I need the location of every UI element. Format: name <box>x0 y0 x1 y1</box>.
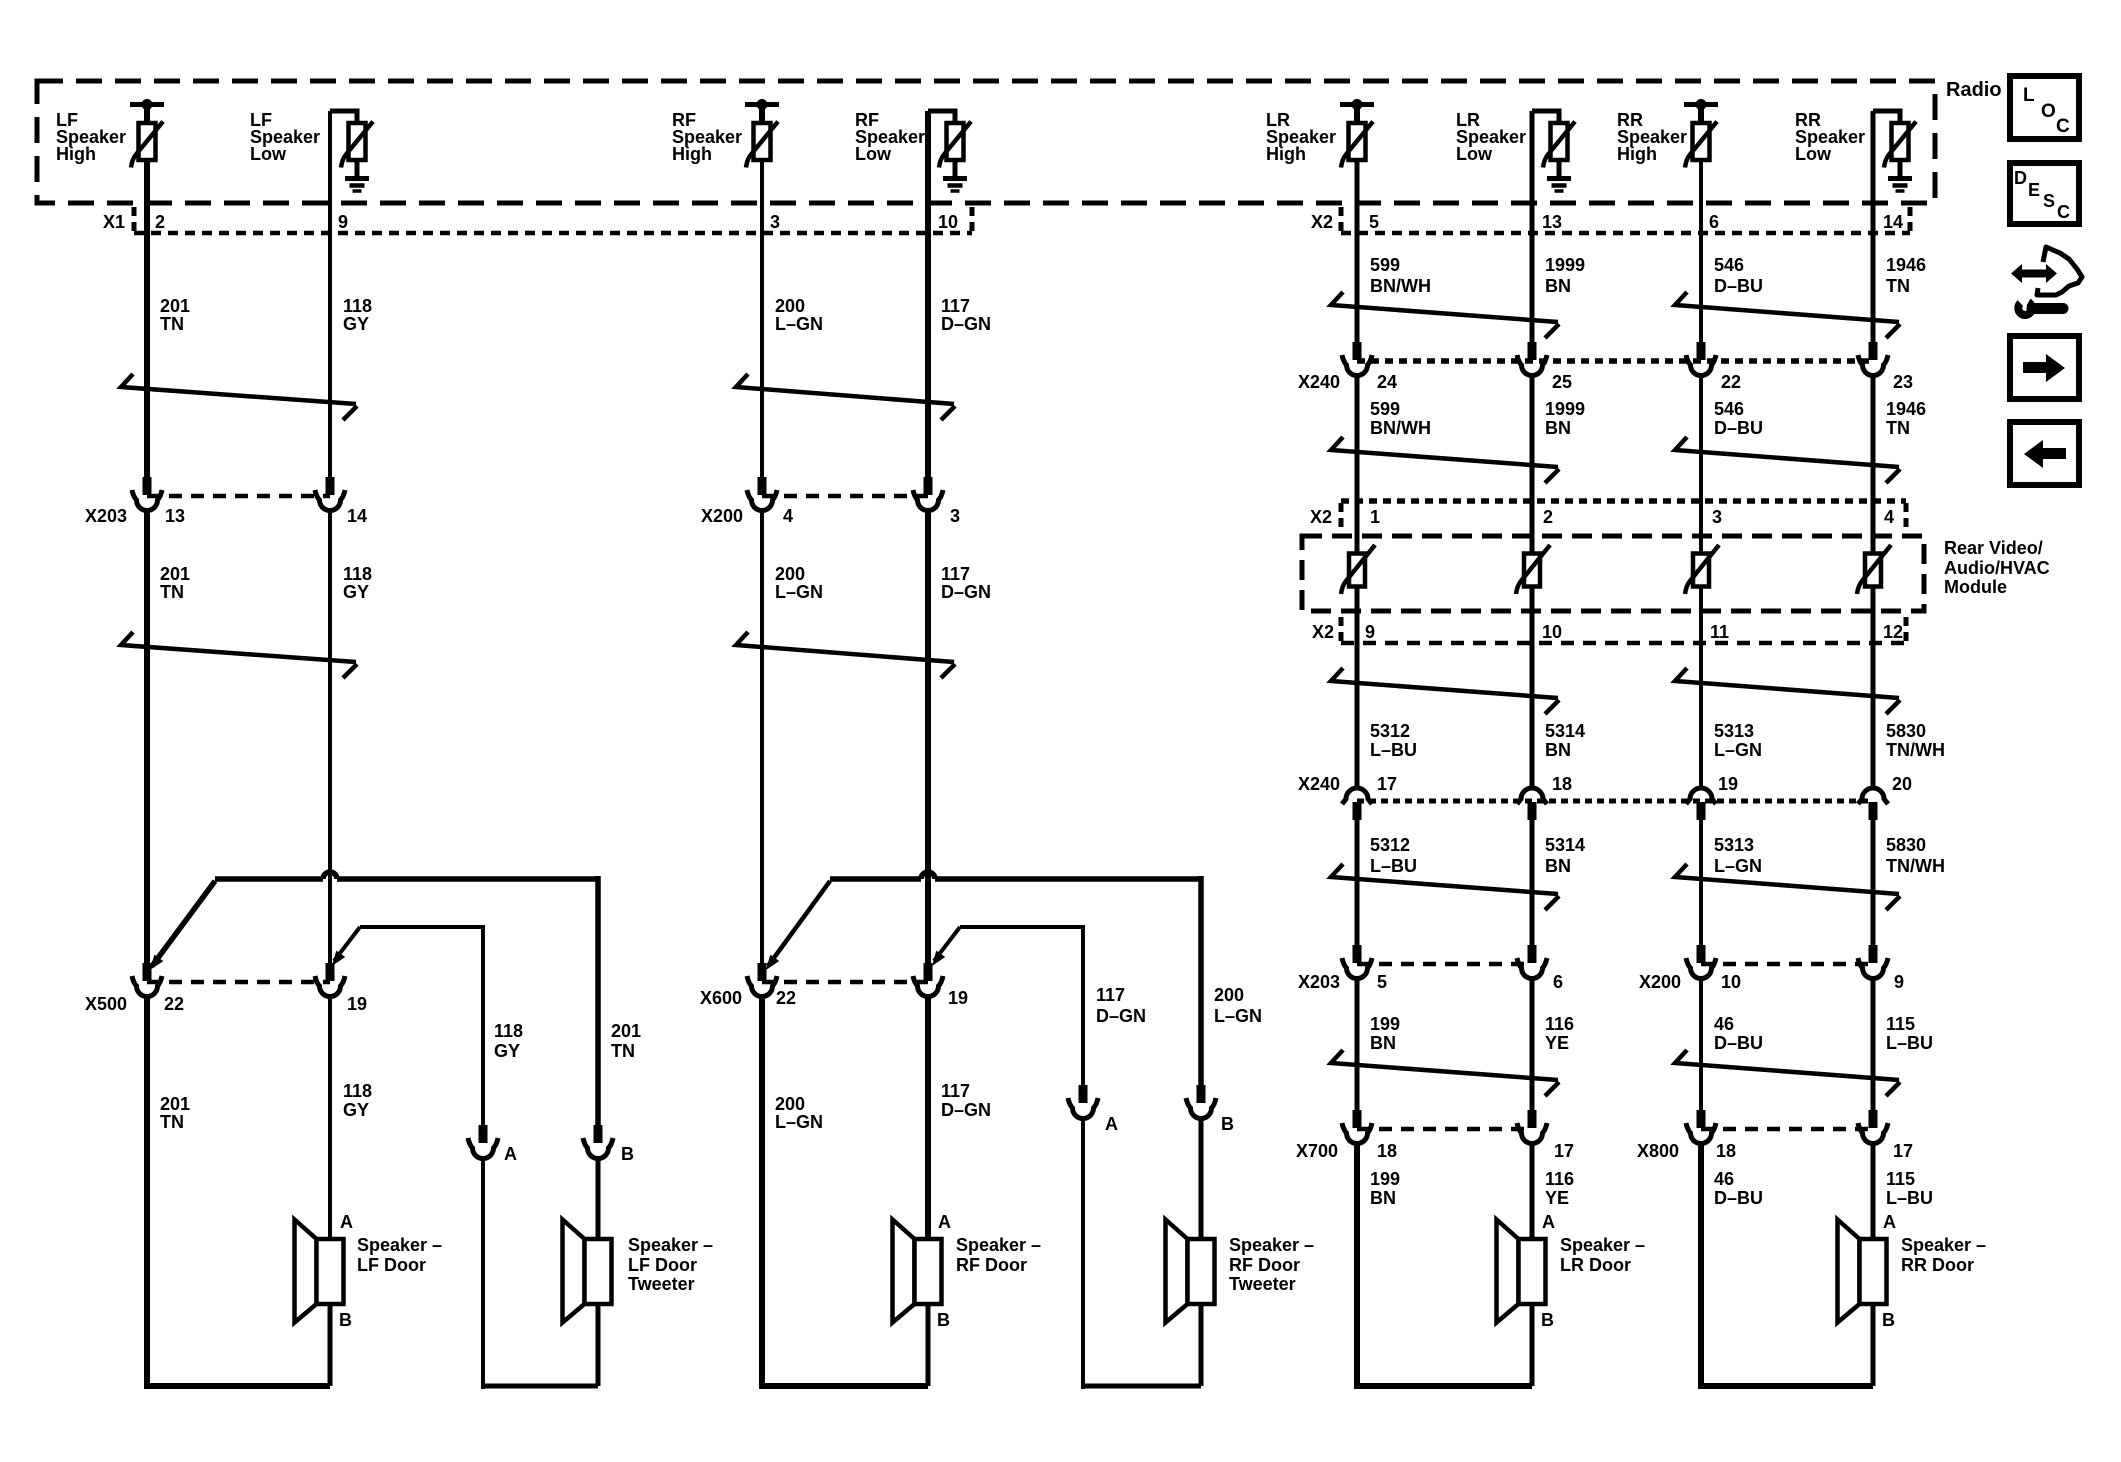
wire branch diagonal into X600 pin 22 <box>768 881 830 966</box>
wire hop over 118 GY <box>323 872 337 879</box>
X203 socket pin 13 <box>143 477 152 495</box>
svg-text:6: 6 <box>1553 972 1563 992</box>
svg-text:200: 200 <box>1214 985 1244 1005</box>
svg-text:B: B <box>339 1310 352 1330</box>
svg-text:X2: X2 <box>1311 212 1333 232</box>
svg-text:23: 23 <box>1893 372 1913 392</box>
wire 117 D-GN (w4) X200 to X600 <box>925 509 931 970</box>
svg-text:D: D <box>2014 168 2027 188</box>
connector X240 (lower) dotted line <box>1357 799 1873 804</box>
svg-text:X500: X500 <box>85 994 127 1014</box>
svg-text:BN: BN <box>1545 418 1571 438</box>
connector X1 right tick <box>970 207 975 233</box>
radio output LF Speaker High (attenuator) <box>130 102 164 107</box>
connector X1 dotted line <box>134 231 972 236</box>
connector X500 dashed line <box>147 980 330 985</box>
svg-text:L: L <box>2023 85 2035 106</box>
inline connector A (LF tweeter) <box>479 1125 488 1143</box>
wire 118 GY (w2) X203 to X500 <box>328 509 332 970</box>
connector X2 (module in) right tick <box>1904 503 1909 529</box>
wire RF tweeter bottom run <box>1081 1384 1201 1389</box>
svg-text:D–BU: D–BU <box>1714 276 1763 296</box>
svg-text:RF Door: RF Door <box>956 1255 1027 1275</box>
twisted pair LF wires <box>121 374 356 404</box>
wire branch 200 L-GN to tweeter (horizontal) <box>960 925 1083 929</box>
svg-text:5314: 5314 <box>1545 721 1585 741</box>
speaker LR Door symbol <box>1497 1220 1519 1323</box>
svg-text:TN/WH: TN/WH <box>1886 740 1945 760</box>
svg-text:A: A <box>340 1212 353 1232</box>
wire 200 L-GN (w3) X600 to bottom <box>759 995 765 1389</box>
svg-text:18: 18 <box>1716 1141 1736 1161</box>
svg-text:Speaker –: Speaker – <box>1560 1235 1645 1255</box>
svg-text:L–GN: L–GN <box>1714 740 1762 760</box>
connector X2 (module out) right tick <box>1904 617 1909 643</box>
svg-text:18: 18 <box>1377 1141 1397 1161</box>
svg-text:TN: TN <box>160 314 184 334</box>
svg-text:17: 17 <box>1554 1141 1574 1161</box>
X600 socket pin 19 <box>924 963 933 981</box>
svg-text:10: 10 <box>1721 972 1741 992</box>
svg-text:12: 12 <box>1883 622 1903 642</box>
connector X600 dashed line <box>762 980 928 985</box>
wire branch diagonal into X500 pin 19 <box>334 927 360 961</box>
connector X2 left tick <box>1339 207 1344 233</box>
svg-text:B: B <box>1541 1310 1554 1330</box>
svg-text:X240: X240 <box>1298 774 1340 794</box>
svg-text:9: 9 <box>1894 972 1904 992</box>
inline connector A (RF tweeter) <box>1079 1085 1088 1103</box>
svg-text:118: 118 <box>494 1021 523 1041</box>
svg-text:D–BU: D–BU <box>1714 418 1763 438</box>
X203 socket pin 14 <box>326 477 335 495</box>
twisted pair RF wires <box>736 374 954 404</box>
X203 rear socket pin 6 <box>1528 945 1537 963</box>
svg-text:Low: Low <box>250 144 287 164</box>
X203 rear socket pin 5 <box>1353 945 1362 963</box>
svg-text:115: 115 <box>1886 1169 1915 1189</box>
twisted pair LR wires (above X700) <box>1331 1050 1558 1080</box>
wire 5314 BN (w6) module to X240 <box>1530 587 1535 790</box>
module attenuator (pin 4) <box>1865 554 1881 587</box>
connector X2 right tick <box>1908 207 1913 233</box>
svg-text:5314: 5314 <box>1545 835 1585 855</box>
wire 546 D-BU (w7) radio to X240 <box>1699 160 1703 349</box>
svg-text:199: 199 <box>1370 1169 1400 1189</box>
rear video/audio/HVAC module dashed box <box>1302 536 1924 611</box>
X200 socket pin 3 <box>924 477 933 495</box>
svg-text:3: 3 <box>950 506 960 526</box>
arrowhead at X600 pin 19 <box>932 951 945 966</box>
connector X800 dashed line <box>1701 1127 1873 1132</box>
svg-text:TN: TN <box>160 1112 184 1132</box>
X200 rear socket pin 9 <box>1869 945 1878 963</box>
svg-text:10: 10 <box>1542 622 1562 642</box>
svg-text:TN: TN <box>1886 276 1910 296</box>
wire 200 L-GN (w3) radio to X200 <box>760 160 764 484</box>
svg-text:X2: X2 <box>1310 507 1332 527</box>
radio output RF Speaker Low (attenuator + ground) <box>928 111 955 123</box>
svg-text:D–GN: D–GN <box>941 314 991 334</box>
svg-text:2: 2 <box>155 212 165 232</box>
X240 lower socket pin 20 <box>1858 788 1888 804</box>
wire 200 L-GN (w3) X200 to X600 <box>760 509 764 970</box>
svg-text:1999: 1999 <box>1545 255 1585 275</box>
twisted pair LF wires (lower) <box>121 632 356 662</box>
wire 117 D-GN (w4) X600 to RF speaker <box>925 995 931 1239</box>
svg-text:46: 46 <box>1714 1014 1734 1034</box>
svg-text:Low: Low <box>1456 144 1493 164</box>
wire 1999 BN (w6) radio to X240 <box>1530 111 1535 349</box>
svg-text:D–GN: D–GN <box>941 582 991 602</box>
X240 lower socket pin 17 <box>1342 788 1372 804</box>
svg-text:BN: BN <box>1545 740 1571 760</box>
svg-text:22: 22 <box>776 988 796 1008</box>
icon wrench with arrows <box>2019 270 2049 278</box>
wire 5830 TN/WH (w8) X240 to X200 <box>1871 819 1876 947</box>
svg-text:Tweeter: Tweeter <box>628 1274 695 1294</box>
wire 115 L-BU (w8) X200 to X800 <box>1871 977 1876 1115</box>
svg-text:Module: Module <box>1944 577 2007 597</box>
speaker RF Door symbol <box>893 1220 915 1323</box>
connector X200 dashed line <box>762 494 928 499</box>
connector X2 (module in) left tick <box>1339 503 1344 529</box>
wire 599 BN/WH (w5) X240 to module <box>1355 374 1360 554</box>
module attenuator (pin 2) <box>1524 554 1540 587</box>
wire 118 GY (tweeter A) to bottom <box>481 1157 485 1389</box>
svg-text:546: 546 <box>1714 399 1744 419</box>
svg-text:201: 201 <box>611 1021 641 1041</box>
wire 5313 L-GN (w7) X240 to X200 <box>1699 819 1703 947</box>
twisted pair LR wires (upper) <box>1331 437 1558 467</box>
svg-text:C: C <box>2056 116 2070 137</box>
X240 lower socket pin 19 <box>1686 788 1716 804</box>
connector X240 dotted line <box>1357 358 1873 364</box>
svg-text:117: 117 <box>941 1081 970 1101</box>
svg-text:GY: GY <box>494 1041 520 1061</box>
svg-text:10: 10 <box>938 212 958 232</box>
svg-text:X600: X600 <box>700 988 742 1008</box>
svg-text:599: 599 <box>1370 399 1400 419</box>
connector X1 left tick <box>132 207 137 233</box>
svg-text:D–BU: D–BU <box>1714 1033 1763 1053</box>
arrowhead at X500 pin 19 <box>332 951 345 966</box>
connector X200 (rear) dashed line <box>1701 962 1873 967</box>
svg-text:199: 199 <box>1370 1014 1400 1034</box>
wire RF door speaker bottom run <box>759 1383 928 1389</box>
svg-text:BN: BN <box>1545 856 1571 876</box>
svg-text:A: A <box>504 1144 517 1164</box>
X200 socket pin 4 <box>758 477 767 495</box>
X700 socket pin 18 <box>1353 1110 1362 1128</box>
wire 201 TN (w1) X203 to X500 <box>144 509 150 970</box>
connector X203 (rear) dashed line <box>1357 962 1532 967</box>
svg-text:GY: GY <box>343 1100 369 1120</box>
wire 115 L-BU (w8) X800 to RR speaker <box>1871 1142 1876 1239</box>
X240 socket pin 24 <box>1353 342 1362 360</box>
wire 201 TN (w1) X500 to bottom <box>144 995 150 1389</box>
svg-text:Speaker –: Speaker – <box>956 1235 1041 1255</box>
svg-text:L–GN: L–GN <box>1214 1006 1262 1026</box>
svg-text:L–GN: L–GN <box>775 582 823 602</box>
svg-text:25: 25 <box>1552 372 1572 392</box>
connector X2 (module out) dashed line <box>1341 641 1906 646</box>
svg-text:High: High <box>1266 144 1306 164</box>
svg-text:O: O <box>2041 101 2056 122</box>
X240 socket pin 22 <box>1697 342 1706 360</box>
speaker RF Door Tweeter symbol <box>1166 1220 1188 1323</box>
wire 5312 L-BU (w5) module to X240 <box>1355 587 1360 790</box>
svg-text:115: 115 <box>1886 1014 1915 1034</box>
wire LF tweeter bottom run <box>481 1384 598 1389</box>
svg-text:TN: TN <box>611 1041 635 1061</box>
svg-text:5: 5 <box>1377 972 1387 992</box>
wire hop over 117 D-GN <box>921 872 935 879</box>
svg-text:24: 24 <box>1377 372 1397 392</box>
wire 546 D-BU (w7) X240 to module <box>1699 374 1703 554</box>
twisted pair LR wires (below module) <box>1331 668 1558 698</box>
wire branch 117 D-GN to tweeter (horizontal) <box>830 876 921 882</box>
speaker LF Door Tweeter symbol <box>563 1220 585 1323</box>
svg-text:L–BU: L–BU <box>1370 856 1417 876</box>
wire 116 YE (w6) X700 to LR speaker <box>1530 1142 1535 1239</box>
twisted pair RR wires (upper) <box>1675 437 1899 467</box>
twisted pair RR wires (above X800) <box>1675 1050 1899 1080</box>
connector X203 dashed line <box>147 494 330 499</box>
arrowhead at X500 pin 22 <box>150 955 163 970</box>
wire 599 BN/WH (w5) radio to X240 <box>1355 160 1360 349</box>
twisted pair RR wires (above X240) <box>1675 292 1899 322</box>
radio output LR Speaker High (attenuator) <box>1340 102 1374 107</box>
svg-text:17: 17 <box>1377 774 1397 794</box>
svg-text:46: 46 <box>1714 1169 1734 1189</box>
icon DESC box <box>2010 163 2079 224</box>
inline connector B (LF tweeter) <box>594 1125 603 1143</box>
wire 200 L-GN (tweeter B) to RF tweeter <box>1199 1117 1204 1239</box>
svg-text:X203: X203 <box>85 506 127 526</box>
svg-text:TN: TN <box>160 582 184 602</box>
svg-text:GY: GY <box>343 314 369 334</box>
svg-text:Speaker –: Speaker – <box>357 1235 442 1255</box>
svg-text:18: 18 <box>1552 774 1572 794</box>
connector X2 (module out) left tick <box>1339 617 1344 643</box>
svg-text:3: 3 <box>1712 507 1722 527</box>
radio output RR Speaker High (attenuator) <box>1684 102 1718 107</box>
svg-text:201: 201 <box>160 1094 190 1114</box>
module attenuator (pin 3) <box>1693 554 1709 587</box>
svg-text:D–GN: D–GN <box>941 1100 991 1120</box>
svg-text:L–BU: L–BU <box>1886 1033 1933 1053</box>
svg-text:L–GN: L–GN <box>775 1112 823 1132</box>
wire LF door speaker bottom run <box>144 1383 330 1389</box>
svg-text:Speaker –: Speaker – <box>1229 1235 1314 1255</box>
wire branch diagonal into X500 pin 22 <box>152 881 215 966</box>
svg-text:19: 19 <box>347 994 367 1014</box>
svg-text:BN: BN <box>1370 1033 1396 1053</box>
wire branch 201 TN to tweeter (horizontal) <box>215 876 323 882</box>
svg-text:201: 201 <box>160 564 190 584</box>
X800 socket pin 18 <box>1697 1110 1706 1128</box>
svg-text:2: 2 <box>1543 507 1553 527</box>
svg-text:14: 14 <box>1883 212 1903 232</box>
svg-text:5313: 5313 <box>1714 835 1754 855</box>
wire branch 118 GY to tweeter (horizontal) <box>360 925 483 929</box>
radio output LF Speaker Low (attenuator + ground) <box>330 111 357 123</box>
svg-text:C: C <box>2057 202 2070 222</box>
svg-text:117: 117 <box>1096 985 1125 1005</box>
wire 199 BN (w5) X700 to bottom <box>1354 1142 1360 1389</box>
svg-text:LF Door: LF Door <box>357 1255 426 1275</box>
svg-text:X200: X200 <box>701 506 743 526</box>
svg-text:3: 3 <box>770 212 780 232</box>
twisted pair RR wires (below module) <box>1675 668 1899 698</box>
X240 lower socket pin 18 <box>1517 788 1547 804</box>
svg-text:118: 118 <box>343 1081 372 1101</box>
svg-text:17: 17 <box>1893 1141 1913 1161</box>
svg-text:L–GN: L–GN <box>775 314 823 334</box>
X240 socket pin 25 <box>1528 342 1537 360</box>
svg-text:TN: TN <box>1886 418 1910 438</box>
radio output LR Speaker Low (attenuator + ground) <box>1532 111 1559 123</box>
svg-text:1946: 1946 <box>1886 399 1926 419</box>
svg-text:BN/WH: BN/WH <box>1370 276 1431 296</box>
svg-text:Speaker –: Speaker – <box>1901 1235 1986 1255</box>
connector X2 dotted line <box>1341 231 1910 236</box>
svg-text:201: 201 <box>160 296 190 316</box>
svg-text:L–GN: L–GN <box>1714 856 1762 876</box>
X800 socket pin 17 <box>1869 1110 1878 1128</box>
inline connector B (RF tweeter) <box>1197 1085 1206 1103</box>
svg-text:BN: BN <box>1370 1188 1396 1208</box>
svg-text:X700: X700 <box>1296 1141 1338 1161</box>
svg-text:L–BU: L–BU <box>1370 740 1417 760</box>
X500 socket pin 19 <box>326 963 335 981</box>
svg-text:L–BU: L–BU <box>1886 1188 1933 1208</box>
wire 199 BN (w5) X203 to X700 <box>1355 977 1360 1115</box>
connector X2 (module in) dotted line <box>1341 498 1906 504</box>
svg-text:D–BU: D–BU <box>1714 1188 1763 1208</box>
svg-text:Radio: Radio <box>1946 79 2002 101</box>
wire 117 D-GN (w4) radio to X200 <box>925 111 931 484</box>
wire 201 TN (w1) radio to X203 <box>144 160 150 484</box>
X700 socket pin 17 <box>1528 1110 1537 1128</box>
svg-text:Audio/HVAC: Audio/HVAC <box>1944 558 2050 578</box>
svg-text:YE: YE <box>1545 1033 1569 1053</box>
twisted pair RR wires (above X200) <box>1675 864 1899 894</box>
svg-text:GY: GY <box>343 582 369 602</box>
wire 5312 L-BU (w5) X240 to X203 <box>1355 819 1360 947</box>
X600 socket pin 22 <box>758 963 767 981</box>
svg-text:5313: 5313 <box>1714 721 1754 741</box>
svg-text:High: High <box>672 144 712 164</box>
svg-text:1999: 1999 <box>1545 399 1585 419</box>
X200 rear socket pin 10 <box>1697 945 1706 963</box>
wire branch diagonal into X600 pin 19 <box>934 927 960 961</box>
svg-text:117: 117 <box>941 296 970 316</box>
speaker LF Door symbol <box>295 1220 317 1323</box>
svg-text:5830: 5830 <box>1886 721 1926 741</box>
wire 118 GY (w2) X500 to LF speaker <box>328 995 332 1239</box>
svg-text:200: 200 <box>775 296 805 316</box>
svg-text:1946: 1946 <box>1886 255 1926 275</box>
wire 201 TN (tweeter B) to LF tweeter <box>596 1157 601 1239</box>
svg-text:High: High <box>1617 144 1657 164</box>
svg-text:19: 19 <box>948 988 968 1008</box>
X240 socket pin 23 <box>1869 342 1878 360</box>
svg-text:YE: YE <box>1545 1188 1569 1208</box>
module attenuator (pin 1) <box>1349 554 1365 587</box>
svg-text:200: 200 <box>775 1094 805 1114</box>
speaker RR Door symbol <box>1838 1220 1860 1323</box>
svg-text:B: B <box>1221 1114 1234 1134</box>
wire 46 D-BU (w7) X200 to X800 <box>1699 977 1703 1115</box>
svg-text:Low: Low <box>855 144 892 164</box>
radio output RR Speaker Low (attenuator + ground) <box>1873 111 1900 123</box>
wire 1946 TN (w8) X240 to module <box>1871 374 1876 554</box>
svg-text:BN: BN <box>1545 276 1571 296</box>
svg-text:9: 9 <box>1365 622 1375 642</box>
svg-text:RR Door: RR Door <box>1901 1255 1974 1275</box>
svg-text:4: 4 <box>1884 507 1894 527</box>
svg-text:Low: Low <box>1795 144 1832 164</box>
svg-text:6: 6 <box>1709 212 1719 232</box>
wire 1946 TN (w8) radio to X240 <box>1871 111 1876 349</box>
svg-text:4: 4 <box>783 506 793 526</box>
svg-text:X1: X1 <box>103 212 125 232</box>
svg-text:5312: 5312 <box>1370 835 1410 855</box>
svg-text:118: 118 <box>343 564 372 584</box>
svg-text:9: 9 <box>338 212 348 232</box>
svg-text:20: 20 <box>1892 774 1912 794</box>
svg-text:116: 116 <box>1545 1014 1574 1034</box>
svg-text:BN/WH: BN/WH <box>1370 418 1431 438</box>
icon back arrow box <box>2010 422 2079 485</box>
icon LOC box <box>2010 76 2079 139</box>
svg-text:546: 546 <box>1714 255 1744 275</box>
svg-text:RF Door: RF Door <box>1229 1255 1300 1275</box>
svg-text:B: B <box>937 1310 950 1330</box>
wire 116 YE (w6) X203 to X700 <box>1530 977 1535 1115</box>
svg-text:14: 14 <box>347 506 367 526</box>
svg-text:E: E <box>2028 180 2040 200</box>
svg-text:A: A <box>938 1212 951 1232</box>
wire 5313 L-GN (w7) module to X240 <box>1699 587 1703 790</box>
svg-text:A: A <box>1105 1114 1118 1134</box>
connector X700 dashed line <box>1357 1127 1532 1132</box>
svg-text:Speaker –: Speaker – <box>628 1235 713 1255</box>
svg-text:X240: X240 <box>1298 372 1340 392</box>
svg-text:A: A <box>1542 1212 1555 1232</box>
svg-text:High: High <box>56 144 96 164</box>
svg-text:A: A <box>1883 1212 1896 1232</box>
svg-text:B: B <box>621 1144 634 1164</box>
svg-text:5: 5 <box>1369 212 1379 232</box>
twisted pair RF wires (lower) <box>736 632 954 662</box>
wire 1999 BN (w6) X240 to module <box>1530 374 1535 554</box>
svg-text:B: B <box>1882 1310 1895 1330</box>
svg-text:116: 116 <box>1545 1169 1574 1189</box>
svg-text:13: 13 <box>165 506 185 526</box>
svg-text:S: S <box>2043 191 2055 211</box>
svg-text:X200: X200 <box>1639 972 1681 992</box>
svg-text:11: 11 <box>1710 622 1729 642</box>
svg-text:200: 200 <box>775 564 805 584</box>
wire LR door speaker bottom run <box>1354 1383 1532 1389</box>
svg-text:599: 599 <box>1370 255 1400 275</box>
svg-text:X203: X203 <box>1298 972 1340 992</box>
svg-text:D–GN: D–GN <box>1096 1006 1146 1026</box>
icon forward arrow box <box>2010 336 2079 399</box>
